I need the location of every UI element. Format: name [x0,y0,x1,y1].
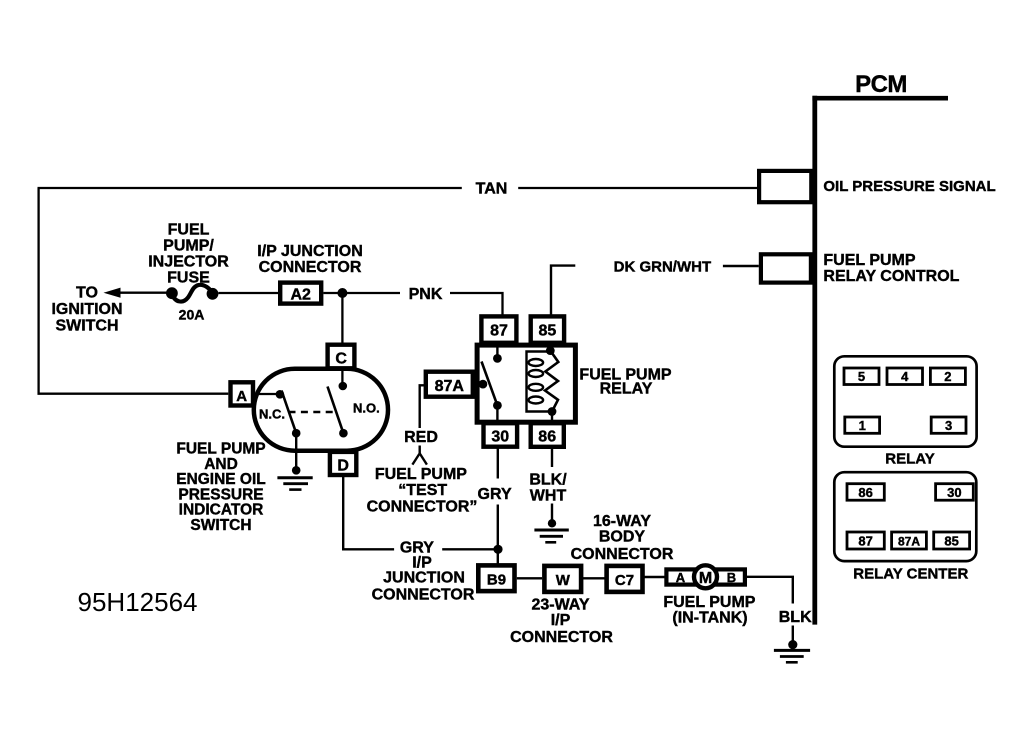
svg-text:FUEL PUMP: FUEL PUMP [823,252,915,269]
svg-text:95H12564: 95H12564 [78,587,198,617]
wire C7 to fuel pump [643,576,667,578]
connector W [544,566,581,592]
wire BLK/WHT to ground [551,504,553,520]
left rail wire down to switch A [39,188,229,394]
svg-text:“TEST: “TEST [398,482,447,499]
connector D [330,452,356,475]
svg-text:JUNCTION: JUNCTION [383,570,465,587]
svg-text:CONNECTOR”: CONNECTOR” [367,499,478,516]
svg-text:CONNECTOR: CONNECTOR [510,629,613,646]
relay panel pin 4 [887,368,923,385]
ground symbol (pump) [774,649,810,652]
svg-text:(IN-TANK): (IN-TANK) [672,610,747,627]
svg-text:D: D [337,458,349,475]
wire D down and right toward GRY [343,475,394,549]
svg-text:A: A [676,570,686,585]
svg-text:BODY: BODY [599,529,646,546]
relay panel pin 3 [931,417,966,433]
fuel pump relay control connector box [761,254,811,282]
svg-text:PCM: PCM [855,71,907,98]
GRY wire pin 30 down [497,447,499,479]
junction dot at A2 output [337,288,347,298]
svg-text:1: 1 [859,418,866,433]
svg-text:WHT: WHT [530,487,567,504]
svg-text:87A: 87A [435,378,465,395]
relay center pin 85 [934,532,970,549]
svg-text:SWITCH: SWITCH [55,318,118,335]
svg-text:16-WAY: 16-WAY [593,513,651,530]
coil stubs to pins 85/86 [549,343,551,351]
svg-text:A2: A2 [290,287,311,304]
svg-text:I/P: I/P [551,612,571,629]
relay panel pin 1 [845,417,880,433]
relay coil [546,346,555,355]
svg-text:N.C.: N.C. [259,406,285,421]
svg-text:GRY: GRY [478,486,512,503]
svg-text:4: 4 [901,369,909,384]
wire C into oval to N.O. contact [341,368,343,386]
relay center pin 87 [847,532,884,549]
svg-text:86: 86 [858,485,872,500]
svg-text:5: 5 [858,369,865,384]
BLK/WHT wire pin 86 down [551,447,553,467]
relay center pin 30 [936,484,974,501]
svg-text:N.O.: N.O. [353,400,380,415]
svg-text:RELAY CENTER: RELAY CENTER [853,565,968,582]
svg-text:I/P JUNCTION: I/P JUNCTION [257,243,363,260]
svg-text:B9: B9 [487,572,506,589]
svg-text:TO: TO [76,285,98,302]
svg-text:A: A [236,388,247,405]
arrow to ignition switch [104,288,121,298]
relay panel pin 5 [844,368,879,385]
connector C7 [607,566,643,592]
svg-text:FUSE: FUSE [167,270,210,287]
relay pin 86 box [531,423,564,447]
RED wire from 87A [420,385,426,428]
mechanical link dashed line [289,411,338,413]
svg-text:87: 87 [858,534,872,549]
svg-text:86: 86 [538,429,556,446]
svg-text:CONNECTOR: CONNECTOR [571,546,674,563]
svg-text:3: 3 [945,418,952,433]
ground symbol (relay 86) [534,529,568,532]
fuse FUEL PUMP/INJECTOR FUSE 20A [166,287,178,299]
svg-text:RELAY: RELAY [885,450,934,467]
svg-text:CONNECTOR: CONNECTOR [372,586,475,603]
wire N.C. contact to ground [295,433,297,470]
svg-text:2: 2 [944,369,951,384]
svg-text:M: M [699,570,712,587]
switch oval body [254,369,388,451]
relay center pin 86 [847,484,884,501]
relay pin 85 box [531,316,564,342]
svg-text:INJECTOR: INJECTOR [148,254,229,271]
svg-text:B: B [727,570,736,585]
svg-text:FUEL: FUEL [168,222,210,239]
svg-text:23-WAY: 23-WAY [531,597,589,614]
connector C [328,345,355,369]
svg-text:30: 30 [491,429,509,446]
svg-text:RED: RED [404,429,438,446]
relay pin 87 box [481,316,516,342]
oil pressure signal connector box [759,171,811,202]
relay main box [477,345,575,422]
svg-text:RELAY CONTROL: RELAY CONTROL [823,268,959,285]
wire A into oval to N.C. contact [253,393,280,395]
svg-text:RELAY: RELAY [600,381,653,398]
svg-text:87: 87 [490,323,508,340]
svg-text:20A: 20A [179,307,205,323]
wire GRY to junction [442,548,498,550]
wire A2 to PNK junction [323,292,400,294]
svg-text:PNK: PNK [409,286,443,303]
relay internal switch [496,347,498,358]
svg-text:OIL PRESSURE SIGNAL: OIL PRESSURE SIGNAL [823,178,995,195]
svg-text:85: 85 [539,323,557,340]
wire fuse to A2 [218,292,278,294]
TAN wire right segment [518,187,757,189]
svg-text:SWITCH: SWITCH [190,517,251,534]
RELAY panel box [834,356,976,446]
wire BLK to ground [792,626,794,641]
svg-text:87A: 87A [898,535,920,549]
connector B9 [478,565,514,591]
PCM top line [812,96,948,101]
svg-text:W: W [556,572,571,589]
svg-text:BLK: BLK [779,609,812,626]
svg-text:FUEL PUMP: FUEL PUMP [663,594,755,611]
relay pin 87A box [426,372,473,397]
junction dot GRY [493,545,502,554]
svg-text:C: C [335,351,347,368]
relay pin 30 box [484,423,518,447]
fuel pump component [666,569,745,584]
wire A2 junction down to C [341,293,343,344]
test connector fork [419,446,421,454]
ground dot (switch) [292,466,301,475]
PCM vertical line [812,96,817,625]
svg-text:85: 85 [944,534,958,549]
BLK wire from pump B to ground [747,577,793,604]
fuel pump motor circle [694,565,717,588]
ground dot (pump) [788,640,797,649]
wire DK GRN/WHT to PCM connector [723,265,759,267]
svg-text:FUEL PUMP: FUEL PUMP [375,466,467,483]
wire 85 up to DK GRN/WHT [551,266,575,316]
N.C. contact: dots and closed blade [276,390,285,399]
wire B9 to W [517,577,542,579]
svg-text:CONNECTOR: CONNECTOR [259,259,362,276]
RELAY CENTER panel box [834,472,976,561]
wire GRY down to B9 [497,505,499,566]
relay panel pin 2 [930,368,965,385]
PNK wire to relay pin 87 [450,293,503,316]
svg-text:DK GRN/WHT: DK GRN/WHT [614,259,712,276]
wire W to C7 [581,577,607,579]
svg-text:BLK/: BLK/ [529,471,567,488]
N.O. contact: dots and open blade [339,382,348,391]
svg-text:C7: C7 [615,572,634,589]
svg-text:TAN: TAN [476,181,508,198]
ground symbol (switch) [277,476,312,479]
svg-text:30: 30 [947,485,961,500]
wire arrow to fuse [118,292,168,294]
connector A [231,382,254,405]
relay center pin 87A [892,532,927,549]
connector A2 [280,283,321,304]
ground dot (relay 86) [548,519,556,527]
svg-text:IGNITION: IGNITION [51,301,122,318]
TAN wire left segment [38,187,462,189]
svg-text:PUMP/: PUMP/ [163,238,214,255]
